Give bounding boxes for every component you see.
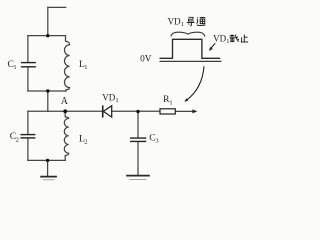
svg-text:A: A — [61, 96, 69, 107]
svg-text:1: 1 — [13, 64, 16, 71]
svg-text:0V: 0V — [140, 55, 152, 65]
svg-text:1: 1 — [84, 64, 87, 71]
svg-text:2: 2 — [16, 136, 19, 143]
svg-text:1: 1 — [115, 97, 118, 104]
svg-text:VD: VD — [102, 92, 115, 102]
svg-text:1: 1 — [226, 38, 229, 45]
svg-text:VD: VD — [213, 33, 226, 43]
svg-text:3: 3 — [155, 138, 158, 145]
svg-text:1: 1 — [181, 21, 184, 28]
svg-text:1: 1 — [169, 99, 172, 106]
svg-text:2: 2 — [84, 138, 87, 145]
svg-text:VD: VD — [168, 16, 181, 26]
